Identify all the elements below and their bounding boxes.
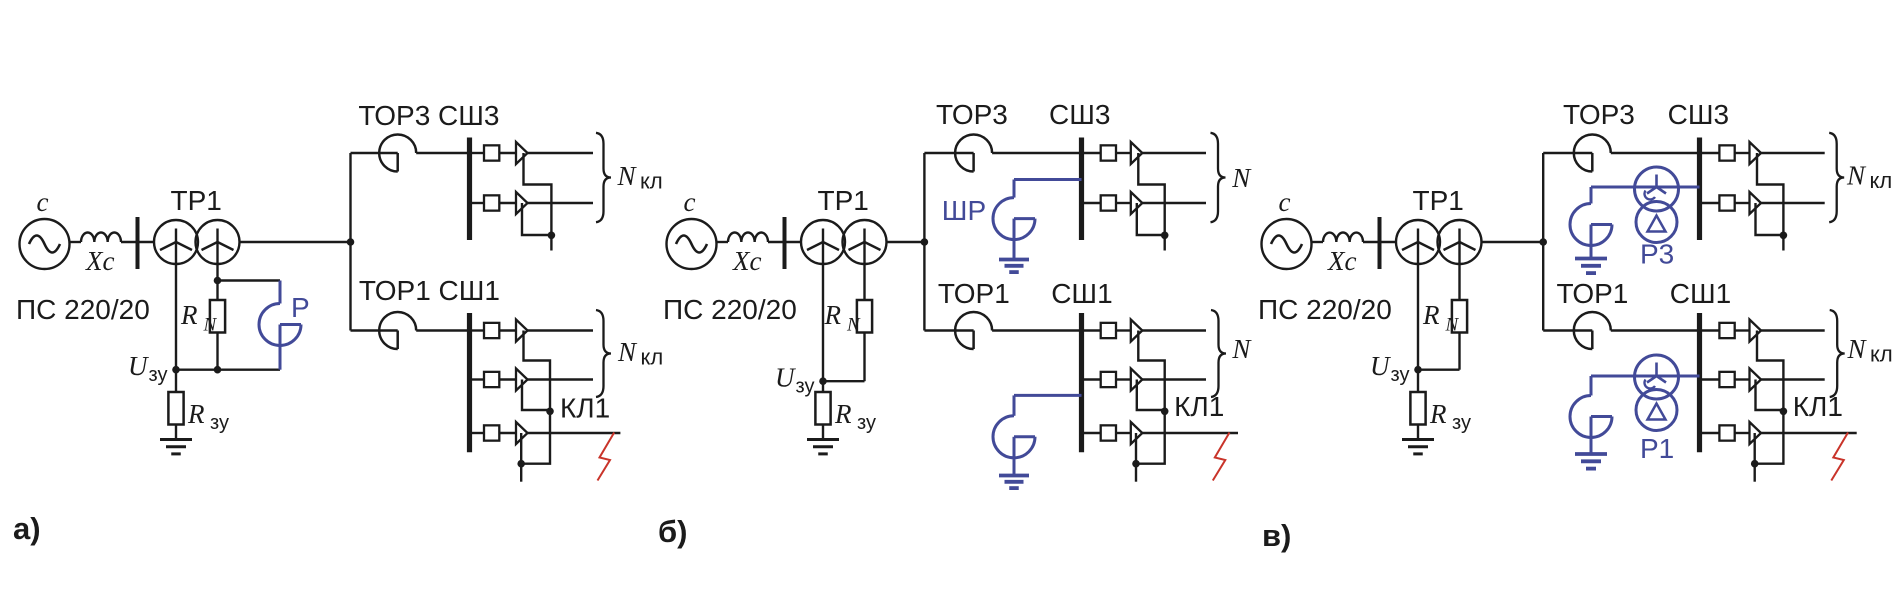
feeder line a-top-1 (470, 142, 594, 164)
node Uzu b (819, 377, 827, 385)
wire coil-transformer a (121, 241, 154, 243)
wire hook-horiz R1 v (1591, 375, 1700, 378)
svg-text:ТОР1 СШ1: ТОР1 СШ1 (359, 275, 500, 306)
svg-text:ТР1: ТР1 (171, 185, 222, 216)
svg-text:c: c (37, 187, 49, 217)
node sheath A b-bot (1161, 408, 1169, 416)
label TR1 a (171, 185, 222, 216)
label TOR3 SSh3 a (358, 100, 499, 131)
wire sheath drop v-top-1 (1757, 153, 1783, 236)
reactor P a (259, 281, 301, 370)
node sheath b-top (1161, 232, 1169, 240)
ground ShR bottom b (999, 476, 1029, 489)
svg-text:кл: кл (1870, 342, 1893, 367)
feeder line b-bot-2 (1082, 369, 1207, 391)
wire CT-bus v-bot (1611, 329, 1700, 331)
grounding transformer R3 v (1635, 167, 1679, 243)
node sheath A a-bot (546, 408, 554, 416)
feeder line a-bot-1 (470, 320, 594, 342)
svg-text:ТОР3: ТОР3 (936, 99, 1008, 130)
source G b (667, 219, 717, 269)
CT a-top (379, 135, 416, 172)
svg-text:КЛ1: КЛ1 (1174, 391, 1224, 422)
ground Rzu a (160, 440, 192, 454)
label N a-top (617, 161, 663, 194)
wire hook-horiz R3 v (1591, 186, 1700, 189)
svg-text:R: R (1429, 399, 1447, 429)
label ShR b (942, 195, 986, 226)
svg-text:N: N (1847, 334, 1868, 364)
svg-text:U: U (1370, 351, 1391, 381)
CT b-top (955, 135, 992, 172)
resistor Rzu a (168, 370, 183, 440)
transformer TR1 v (1396, 220, 1482, 264)
svg-text:Р: Р (291, 292, 310, 323)
brace a-top (596, 133, 611, 222)
wire neutral-right b (863, 229, 865, 301)
busbar v-bot (1697, 313, 1702, 452)
svg-text:ПС 220/20: ПС 220/20 (1258, 294, 1392, 325)
svg-text:R: R (834, 399, 852, 429)
wire sheath drop b-bot-1 (1138, 331, 1164, 412)
wire sheath drop v-bot-2 (1756, 380, 1784, 411)
wire junction-up v (1542, 153, 1544, 242)
wire sheath drop a-bot-2 (522, 380, 550, 411)
svg-text:Xc: Xc (85, 246, 114, 276)
wire neutral-left b (822, 229, 824, 382)
label Xc v (1327, 246, 1356, 276)
label N b-top (1231, 163, 1252, 193)
svg-text:кл: кл (641, 345, 664, 370)
reactor ShR top b (993, 180, 1081, 260)
feeder line b-bot-3 (1082, 422, 1239, 444)
inductor Xc a (81, 232, 121, 242)
brace b-top (1211, 133, 1226, 222)
svg-text:R: R (1422, 300, 1440, 330)
ground Rzu v (1402, 440, 1434, 454)
feeder line a-bot-2 (470, 369, 594, 391)
svg-text:N: N (1231, 163, 1252, 193)
wire junction-CT a-top (351, 152, 398, 154)
junction node a (347, 238, 355, 246)
label RN v (1422, 300, 1460, 336)
svg-text:зу: зу (1391, 364, 1410, 386)
svg-text:Xc: Xc (732, 246, 761, 276)
wire sheath stub a-bot (520, 464, 522, 482)
svg-text:ШР: ШР (942, 195, 986, 226)
wire junction-down a (349, 242, 351, 331)
svg-text:U: U (128, 351, 149, 381)
label SSh3 v (1668, 99, 1729, 130)
hook reactor R1 v (1570, 376, 1612, 454)
wire sheath stub v-bot (1753, 464, 1755, 482)
label SSh1 b (1051, 278, 1112, 309)
node sheath A v-bot (1780, 408, 1788, 416)
resistor RN v (1418, 300, 1467, 370)
wire CT-bus a-bot (416, 329, 469, 331)
junction node b (921, 238, 929, 246)
wire sheath drop a-bot-3 (520, 433, 522, 464)
label Uzu v (1370, 351, 1409, 386)
node sheath B v-bot (1751, 460, 1759, 468)
CT b-bot (955, 312, 992, 349)
wire sheath drop v-top-2 (1756, 203, 1784, 235)
node sheath B b-bot (1132, 460, 1140, 468)
svg-text:зу: зу (149, 364, 168, 386)
wire source-coil b (717, 241, 729, 243)
wire junction-CT b-bot (924, 329, 973, 331)
svg-text:U: U (775, 363, 796, 393)
svg-text:c: c (1279, 187, 1291, 217)
svg-text:N: N (617, 161, 638, 191)
wire sheath common b-bot (1136, 411, 1165, 463)
label TR1 b (818, 185, 869, 216)
label TOR1 b (938, 278, 1010, 309)
feeder line a-top-2 (470, 192, 594, 214)
node RN-bottom a (214, 366, 222, 374)
wire CT-bus a-top (416, 152, 469, 154)
wire RN-top-branch a (218, 279, 281, 281)
grounding transformer R1 v (1635, 355, 1679, 431)
label R1 v (1640, 433, 1674, 464)
wire coil-transformer b (768, 241, 801, 243)
svg-text:в): в) (1262, 518, 1291, 553)
busbar b-top (1079, 138, 1084, 241)
brace b-bot (1211, 310, 1226, 397)
busbar v-top (1697, 138, 1702, 241)
label b) (658, 514, 687, 549)
svg-text:c: c (684, 187, 696, 217)
label SSh3 b (1049, 99, 1110, 130)
node RN-top a (214, 277, 222, 285)
wire sheath drop b-top-2 (1137, 203, 1165, 235)
svg-text:ТР1: ТР1 (818, 185, 869, 216)
svg-text:N: N (617, 337, 638, 367)
wire junction-down b (923, 242, 925, 331)
svg-text:N: N (203, 315, 218, 336)
fault lightning b (1213, 433, 1230, 481)
bus tick v (1378, 217, 1382, 269)
wire source-coil v (1312, 241, 1324, 243)
wire sheath drop v-bot-1 (1757, 331, 1783, 412)
wire junction-down v (1542, 242, 1544, 331)
label Rzu a (187, 399, 229, 434)
node sheath B a-bot (517, 460, 525, 468)
ground Rzu b (807, 440, 839, 454)
wire junction-up b (923, 153, 925, 242)
wire sheath drop b-bot-2 (1137, 380, 1165, 411)
label a) (13, 511, 41, 546)
inductor Xc b (728, 232, 768, 242)
svg-text:ТОР3 СШ3: ТОР3 СШ3 (358, 100, 499, 131)
resistor Rzu b (815, 381, 830, 439)
wire sheath drop b-top-1 (1138, 153, 1164, 236)
svg-text:зу: зу (796, 376, 815, 398)
wire sheath stub b-bot (1135, 464, 1137, 482)
svg-text:ТОР3: ТОР3 (1563, 99, 1635, 130)
ground hook R1 v (1575, 454, 1607, 469)
reactor ShR bottom b (993, 395, 1081, 475)
label P a (291, 292, 310, 323)
wire Uzu-bus a (176, 369, 280, 371)
svg-text:ПС 220/20: ПС 220/20 (663, 294, 797, 325)
svg-text:зу: зу (857, 412, 876, 434)
svg-text:ТОР1: ТОР1 (938, 278, 1010, 309)
svg-text:СШ3: СШ3 (1049, 99, 1110, 130)
svg-text:R: R (180, 300, 198, 330)
feeder line a-bot-3 (470, 422, 621, 444)
label Xc a (85, 246, 114, 276)
svg-text:СШ3: СШ3 (1668, 99, 1729, 130)
svg-text:ТОР1: ТОР1 (1557, 278, 1629, 309)
feeder line b-bot-1 (1082, 320, 1207, 342)
busbar a-bot (467, 313, 472, 452)
wire sheath drop b-bot-3 (1135, 433, 1137, 464)
svg-text:зу: зу (1452, 412, 1471, 434)
wire junction-CT v-bot (1543, 329, 1592, 331)
busbar b-bot (1079, 313, 1084, 452)
svg-text:зу: зу (210, 412, 229, 434)
label KL1 b (1174, 391, 1224, 422)
wire sheath common a-bot (521, 411, 550, 463)
wire CT-bus v-top (1611, 152, 1700, 154)
svg-text:КЛ1: КЛ1 (560, 393, 610, 424)
label Rzu b (834, 399, 876, 434)
brace v-top (1829, 133, 1844, 222)
wire sheath common v-bot (1755, 411, 1784, 463)
label TOR1 v (1557, 278, 1629, 309)
resistor Rzu v (1410, 370, 1425, 440)
busbar a-top (467, 138, 472, 241)
label N v-top (1846, 161, 1892, 194)
resistor RN b (823, 300, 872, 381)
resistor RN a (210, 281, 225, 370)
CT a-bot (379, 312, 416, 349)
wire junction-CT a-bot (351, 329, 398, 331)
label Uzu b (775, 363, 814, 398)
node sheath a-top (548, 232, 556, 240)
wire sheath drop a-top-1 (524, 153, 552, 236)
wire sheath stub a-top (550, 235, 552, 250)
svg-text:ПС 220/20: ПС 220/20 (16, 294, 150, 325)
wire CT-bus b-top (992, 152, 1081, 154)
wire neutral-right v (1458, 229, 1460, 301)
wire coil-transformer v (1363, 241, 1396, 243)
wire junction-CT v-top (1543, 152, 1592, 154)
svg-text:СШ1: СШ1 (1670, 278, 1731, 309)
svg-text:N: N (1846, 161, 1867, 191)
svg-text:Р1: Р1 (1640, 433, 1674, 464)
svg-text:R: R (824, 300, 842, 330)
label KL1 a (560, 393, 610, 424)
label TR1 v (1413, 185, 1464, 216)
wire neutral-left v (1417, 229, 1419, 370)
label TOR3 v (1563, 99, 1635, 130)
feeder line v-bot-1 (1700, 320, 1825, 342)
ground ShR top b (999, 260, 1029, 273)
feeder line b-top-1 (1082, 142, 1207, 164)
wire source-coil a (70, 241, 82, 243)
feeder line v-bot-2 (1700, 369, 1825, 391)
svg-text:Р3: Р3 (1640, 239, 1674, 270)
wire TR1-junction v (1482, 241, 1544, 243)
label PS 220/20 v (1258, 294, 1392, 325)
label R3 v (1640, 239, 1674, 270)
wire sheath drop a-top-2 (522, 203, 551, 235)
feeder line v-top-2 (1700, 192, 1825, 214)
wire TR1-junction a (240, 241, 351, 243)
wire sheath stub b-top (1163, 235, 1165, 250)
label c a (37, 187, 49, 217)
CT v-top (1574, 135, 1611, 172)
label N v-bot (1847, 334, 1893, 367)
fault lightning v (1831, 433, 1848, 481)
label c b (684, 187, 696, 217)
svg-text:N: N (1231, 334, 1252, 364)
node sheath v-top (1780, 232, 1788, 240)
label c v (1279, 187, 1291, 217)
hook reactor R3 v (1570, 187, 1612, 258)
label Rzu v (1429, 399, 1471, 434)
label Uzu a (128, 351, 167, 386)
label PS 220/20 b (663, 294, 797, 325)
wire neutral-right a (216, 229, 218, 281)
wire neutral-left a (175, 229, 177, 370)
feeder line b-top-2 (1082, 192, 1207, 214)
wire TR1-junction b (887, 241, 925, 243)
inductor Xc v (1323, 233, 1363, 243)
brace a-bot (596, 310, 611, 397)
fault lightning a (598, 433, 615, 481)
junction node v (1539, 238, 1547, 246)
label Xc b (732, 246, 761, 276)
wire sheath stub v-top (1782, 235, 1784, 250)
svg-text:R: R (187, 399, 205, 429)
svg-text:КЛ1: КЛ1 (1793, 391, 1843, 422)
label N a-bot (617, 337, 663, 370)
feeder line v-bot-3 (1700, 422, 1857, 444)
transformer TR1 a (154, 220, 240, 264)
label KL1 v (1793, 391, 1843, 422)
svg-text:кл: кл (1870, 168, 1893, 193)
wire junction-up a (349, 153, 351, 242)
label TOR3 b (936, 99, 1008, 130)
wire sheath drop a-bot-1 (524, 331, 551, 412)
wire sheath drop v-bot-3 (1753, 433, 1755, 464)
node Uzu v (1414, 366, 1422, 374)
label PS 220/20 a (16, 294, 150, 325)
label v) (1262, 518, 1291, 553)
source G v (1262, 219, 1312, 269)
svg-text:а): а) (13, 511, 41, 546)
feeder line v-top-1 (1700, 142, 1825, 164)
svg-text:СШ1: СШ1 (1051, 278, 1112, 309)
CT v-bot (1574, 312, 1611, 349)
label RN a (180, 300, 218, 336)
wire CT-bus b-bot (992, 329, 1081, 331)
svg-text:N: N (1445, 315, 1460, 336)
source G a (20, 219, 70, 269)
bus tick b (783, 217, 787, 269)
svg-text:б): б) (658, 514, 687, 549)
svg-text:кл: кл (640, 169, 663, 194)
brace v-bot (1830, 310, 1845, 397)
label RN b (824, 300, 862, 336)
wire junction-CT b-top (924, 152, 973, 154)
svg-text:Xc: Xc (1327, 246, 1356, 276)
svg-text:N: N (846, 315, 861, 336)
ground hook R3 v (1575, 259, 1607, 274)
label TOR1 SSh1 a (359, 275, 500, 306)
bus tick a (136, 217, 140, 269)
node Uzu a (172, 366, 180, 374)
svg-text:ТР1: ТР1 (1413, 185, 1464, 216)
transformer TR1 b (801, 220, 887, 264)
label SSh1 v (1670, 278, 1731, 309)
label N b-bot (1231, 334, 1252, 364)
